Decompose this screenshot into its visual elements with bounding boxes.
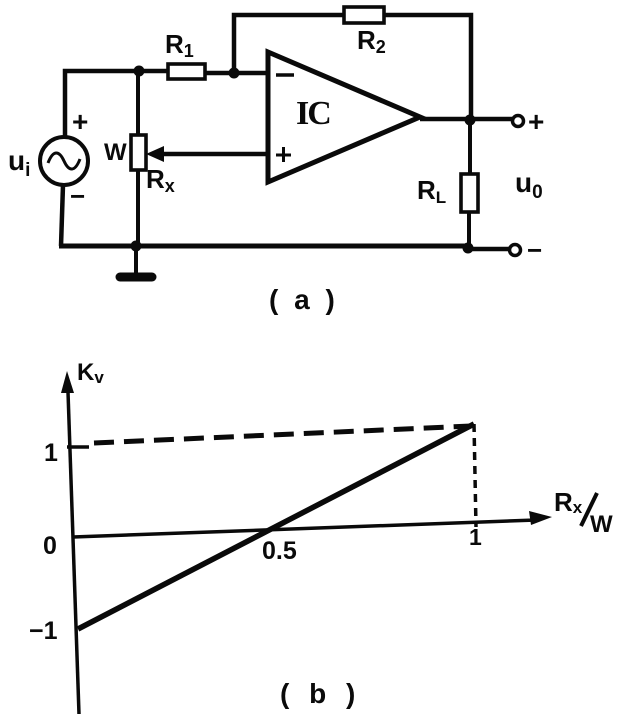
svg-text:( b ): ( b ) [280, 678, 361, 709]
node B (junction dot at minus input) [229, 68, 240, 79]
ground [134, 246, 138, 274]
wire: source bottom to rail [61, 185, 63, 246]
resistor R1 [168, 64, 205, 79]
node D (output junction) [465, 115, 476, 126]
svg-text:W: W [104, 139, 127, 166]
x-axis [73, 520, 536, 537]
solid transfer line [78, 424, 474, 629]
svg-text:u0: u0 [515, 167, 543, 203]
svg-text:0.5: 0.5 [262, 537, 297, 565]
terminal - (open circle) [510, 245, 521, 256]
svg-text:1: 1 [44, 439, 58, 467]
svg-text:IC: IC [296, 95, 330, 132]
op-amp U1 (IC) [268, 52, 420, 182]
voltage source u_i [40, 137, 88, 185]
dashed horizontal at Kv=1 [94, 426, 471, 443]
wire: node A to R1 [139, 69, 168, 74]
terminal + (open circle) [513, 116, 524, 127]
wire: feedback up from node B [234, 15, 471, 120]
bottom rail [59, 244, 468, 249]
y-axis Kv [68, 392, 79, 714]
node A (junction dot) [134, 66, 145, 77]
node E (bottom-right junction) [463, 243, 474, 254]
wire: R1 to op-amp minus input [205, 71, 268, 76]
svg-text:+: + [72, 106, 88, 137]
wire: plus input to Rx wiper (arrow) [158, 152, 268, 157]
wire: rail to - terminal [468, 247, 509, 252]
potentiometer W / Rx [136, 71, 140, 135]
svg-text:RL: RL [417, 175, 446, 207]
svg-text:Kv: Kv [77, 359, 104, 387]
minus marking [276, 73, 294, 77]
svg-text:ui: ui [8, 145, 30, 181]
wire: op-amp output to + terminal [420, 117, 512, 122]
svg-text:R1: R1 [165, 29, 194, 61]
resistor RL [468, 120, 472, 174]
svg-text:+: + [528, 106, 544, 137]
svg-text:−: − [70, 181, 85, 211]
svg-text:R2: R2 [357, 25, 386, 57]
svg-text:−: − [527, 235, 542, 265]
svg-text:Rx: Rx [554, 487, 583, 517]
svg-text:W: W [590, 511, 613, 538]
svg-text:1: 1 [469, 524, 482, 550]
dashed vertical at x=1 [474, 424, 476, 527]
svg-text:0: 0 [43, 532, 57, 560]
tick 1 on y-axis [67, 445, 89, 449]
plus marking [276, 147, 291, 162]
resistor R2 [344, 7, 384, 23]
wire: source top to node A [65, 71, 139, 137]
svg-text:−1: −1 [29, 617, 58, 645]
node C (ground junction) [131, 241, 142, 252]
svg-text:( a ): ( a ) [269, 284, 339, 315]
svg-text:Rx: Rx [146, 164, 175, 196]
